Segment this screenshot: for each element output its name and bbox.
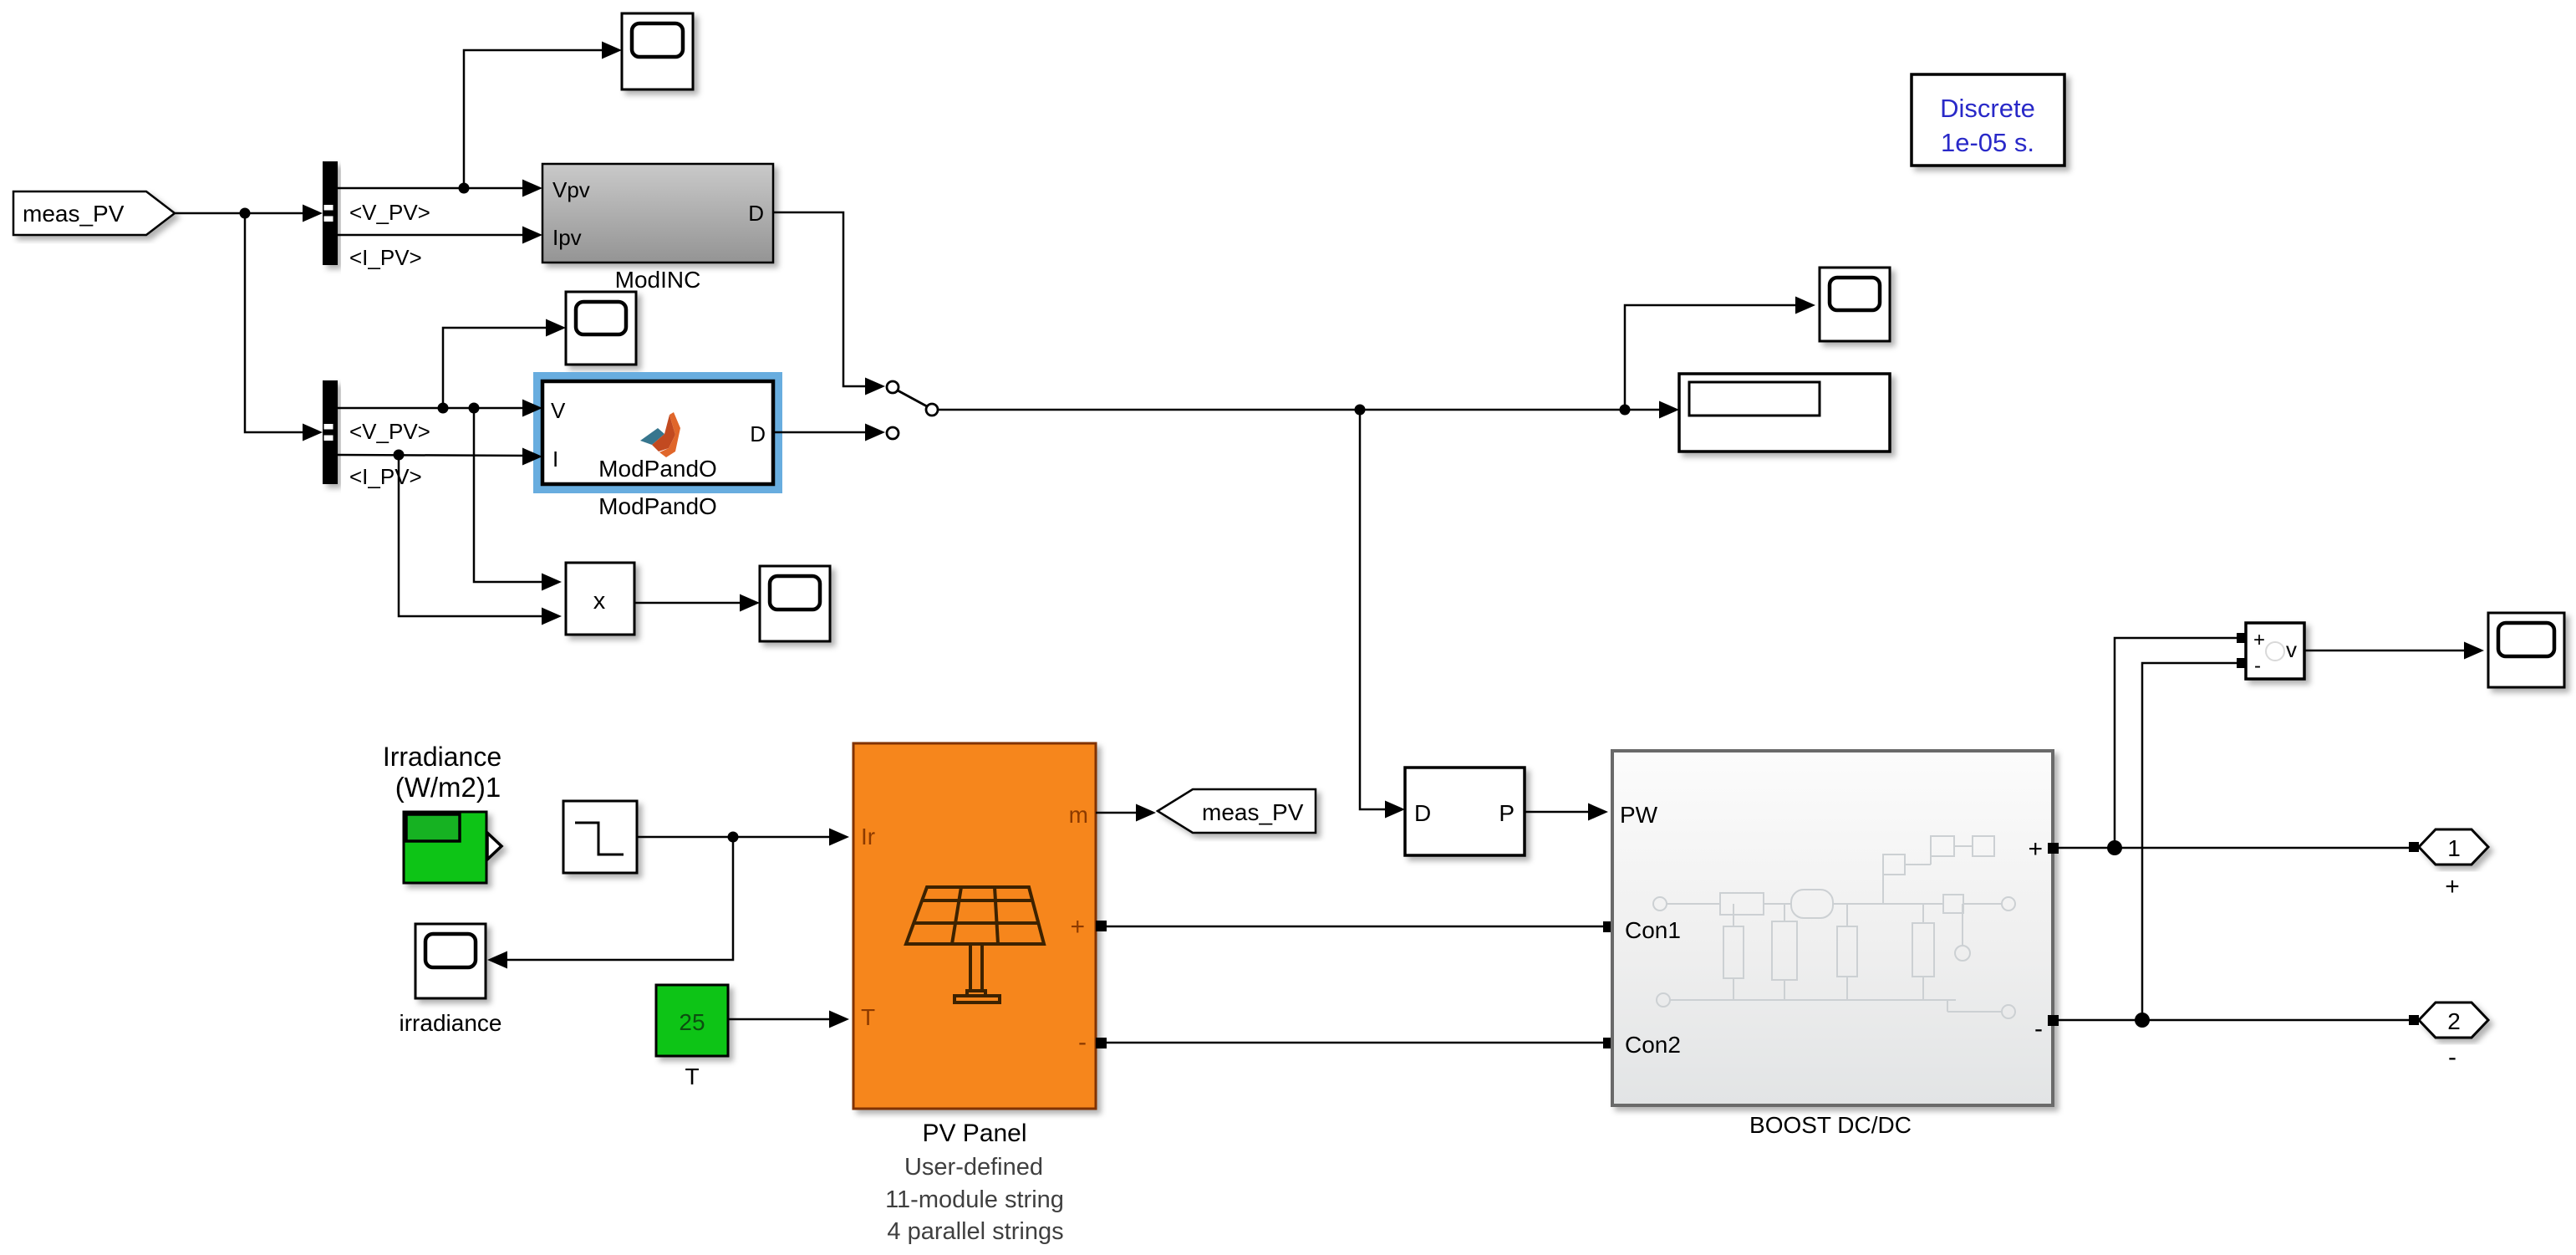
wire product to scope3: [634, 602, 755, 605]
svg-text:T: T: [685, 1064, 699, 1089]
signal builder Irradiance: [404, 812, 501, 883]
svg-text:Discrete: Discrete: [1940, 94, 2035, 123]
wire voltmeter to scope5: [2304, 650, 2479, 652]
svg-text:m: m: [1069, 802, 1088, 828]
ghost circuit inside BOOST: [1653, 836, 2015, 1018]
matlab function block ModPandO: [542, 381, 773, 484]
scope Scope1: [622, 13, 693, 89]
wire V_PV up to scope1: [464, 50, 617, 188]
wire bus2 I_PV to ModPandO I: [338, 455, 537, 456]
svg-text:4 parallel strings: 4 parallel strings: [887, 1218, 1063, 1245]
wire PV - to Con2: [1107, 1042, 1603, 1044]
wire bus1 V_PV to ModINC Vpv: [338, 187, 537, 190]
port pad PV -: [1096, 1038, 1107, 1048]
wire down to irradiance scope: [491, 837, 733, 960]
matlab logo: [640, 412, 680, 457]
subsystem PV Panel: [853, 743, 1096, 1109]
step block: [563, 801, 637, 873]
wire - up to voltmeter: [2142, 663, 2237, 1020]
selection highlight ModPandO: [538, 377, 778, 489]
svg-text:+: +: [1070, 913, 1085, 941]
wire ModINC D to switch input 1: [773, 212, 866, 386]
wire V_PV down to product input 1: [474, 408, 557, 582]
wire switch output main line: [938, 409, 1674, 411]
svg-text:<V_PV>: <V_PV>: [349, 200, 430, 225]
port pad Con2: [1603, 1038, 1614, 1048]
port pad BOOST -: [2048, 1015, 2059, 1026]
manual switch: [887, 381, 938, 439]
svg-text:(W/m2)1: (W/m2)1: [395, 772, 501, 803]
svg-text:Vpv: Vpv: [552, 177, 590, 202]
output port 2: [2419, 1002, 2488, 1038]
svg-text:V: V: [551, 398, 566, 423]
svg-text:2: 2: [2447, 1008, 2461, 1034]
wire V_PV to scope2: [443, 328, 561, 408]
svg-text:-: -: [2034, 1015, 2043, 1043]
svg-text:ModPandO: ModPandO: [598, 493, 717, 519]
wire I_PV down to product input 2: [399, 455, 557, 616]
wire T to PV T input: [728, 1018, 844, 1021]
svg-text:25: 25: [679, 1009, 705, 1035]
wire PV + to Con1: [1107, 926, 1603, 928]
wire meas_PV down to bus selector 2: [245, 213, 318, 432]
powergui Discrete annotation: [1912, 74, 2064, 166]
svg-text:-: -: [2254, 655, 2261, 677]
subsystem BOOST DC/DC: [1612, 751, 2053, 1105]
junction main to scope4: [1620, 405, 1631, 416]
junction V_PV to product: [469, 403, 480, 414]
subsystem ModINC: [542, 164, 773, 263]
port pad voltmeter +: [2237, 633, 2247, 643]
svg-text:+: +: [2445, 873, 2460, 900]
svg-text:Irradiance: Irradiance: [383, 742, 501, 772]
svg-text:D: D: [1414, 800, 1431, 826]
junction V_PV scope branch: [459, 183, 470, 194]
svg-text:11-module string: 11-module string: [885, 1186, 1064, 1213]
svg-text:PV Panel: PV Panel: [922, 1120, 1026, 1147]
port pad Con1: [1603, 921, 1614, 932]
svg-text:BOOST DC/DC: BOOST DC/DC: [1749, 1112, 1912, 1138]
junction + sense: [2107, 840, 2122, 855]
wire step to PV Ir: [637, 836, 844, 839]
BOOST port labels: [1620, 802, 2043, 1058]
subsystem D to P: [1405, 768, 1525, 855]
wire up to scope4: [1625, 305, 1810, 410]
port pad BOOST +: [2048, 843, 2059, 854]
wire meas_PV to bus selector 1: [175, 212, 318, 215]
goto tag meas_PV: [1158, 789, 1316, 833]
scope Scope3: [760, 566, 830, 641]
svg-text:P: P: [1499, 800, 1515, 826]
port pad out2: [2409, 1015, 2419, 1025]
svg-text:ModINC: ModINC: [615, 267, 701, 293]
svg-text:v: v: [2286, 637, 2297, 662]
wire down to D-P block: [1360, 410, 1400, 809]
svg-text:irradiance: irradiance: [400, 1010, 502, 1036]
scope irradiance: [415, 924, 486, 998]
from tag meas_PV: [13, 191, 175, 235]
junction I_PV to product: [394, 450, 405, 461]
port pad out1: [2409, 842, 2419, 852]
wire BOOST + to port 1: [2059, 847, 2409, 849]
svg-text:meas_PV: meas_PV: [1202, 799, 1304, 825]
junction main to D-P: [1355, 405, 1366, 416]
svg-text:<I_PV>: <I_PV>: [349, 464, 422, 489]
scope Scope5: [2488, 613, 2564, 687]
junction - sense: [2135, 1013, 2150, 1028]
PV panel icon: [906, 887, 1044, 1002]
junction V_PV to scope2: [438, 403, 449, 414]
wire BOOST - to port 2: [2059, 1019, 2409, 1022]
svg-text:Con2: Con2: [1625, 1032, 1681, 1058]
bus selector 1: [323, 161, 338, 265]
svg-text:ModPandO: ModPandO: [598, 456, 717, 482]
output port 1: [2419, 829, 2488, 865]
svg-text:I: I: [552, 446, 558, 472]
svg-text:Con1: Con1: [1625, 917, 1681, 943]
svg-text:D: D: [750, 421, 766, 446]
svg-text:-: -: [2448, 1043, 2456, 1071]
svg-text:1e-05 s.: 1e-05 s.: [1941, 128, 2034, 157]
constant T = 25: [656, 985, 728, 1056]
svg-text:Ipv: Ipv: [552, 225, 582, 250]
wire PV m to goto tag: [1096, 812, 1137, 814]
svg-text:x: x: [593, 588, 606, 615]
wire bus2 V_PV to ModPandO V: [338, 407, 537, 410]
junction meas_PV split: [240, 208, 251, 219]
junction step output: [728, 832, 739, 843]
svg-text:-: -: [1078, 1028, 1087, 1056]
wire + up to voltmeter: [2115, 638, 2237, 848]
bus selector 2: [323, 380, 338, 484]
svg-text:1: 1: [2447, 835, 2461, 861]
svg-text:T: T: [861, 1004, 875, 1030]
svg-text:<I_PV>: <I_PV>: [349, 245, 422, 270]
svg-text:User-defined: User-defined: [904, 1154, 1043, 1181]
svg-text:<V_PV>: <V_PV>: [349, 419, 430, 444]
wire bus1 I_PV to ModINC Ipv: [338, 234, 537, 237]
wire D-P to BOOST PW: [1525, 811, 1602, 814]
voltage measurement block: [2246, 623, 2304, 679]
port pad voltmeter -: [2237, 658, 2247, 668]
svg-text:PW: PW: [1620, 802, 1658, 828]
svg-text:D: D: [748, 201, 764, 226]
svg-text:meas_PV: meas_PV: [23, 201, 125, 227]
svg-text:+: +: [2028, 835, 2043, 863]
scope Scope4: [1820, 268, 1890, 341]
svg-text:+: +: [2253, 629, 2265, 651]
port pad PV +: [1096, 921, 1107, 931]
svg-text:Ir: Ir: [861, 824, 875, 849]
scope Scope2: [566, 292, 636, 365]
wire ModPandO D to switch input 2: [773, 431, 866, 434]
product block x: [566, 563, 634, 635]
display block: [1679, 374, 1890, 451]
